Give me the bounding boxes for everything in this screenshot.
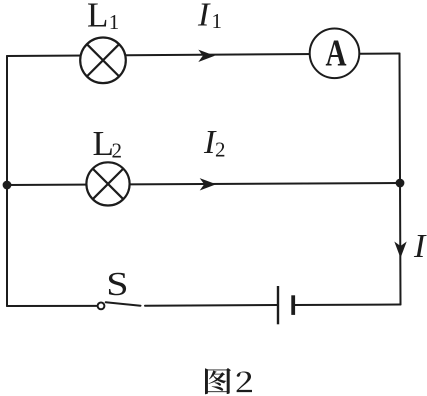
arrow current I1 on top wire (198, 50, 215, 62)
arrow current I on right wire (down) (394, 242, 406, 259)
wire right vertical (400, 54, 401, 305)
svg-text:I: I (413, 228, 427, 265)
wire bottom left (to switch) (7, 305, 97, 307)
svg-text:I: I (197, 0, 211, 33)
wire bottom middle (switch to battery) (145, 304, 277, 307)
node right junction dot (396, 179, 405, 188)
switch S pivot circle (98, 303, 105, 310)
battery short plate (negative) (291, 295, 295, 315)
label I2 (203, 124, 226, 162)
svg-text:1: 1 (212, 9, 223, 33)
svg-text:1: 1 (109, 10, 120, 34)
svg-text:L: L (87, 0, 108, 35)
label I1 (197, 0, 222, 33)
lamp L2 (86, 162, 129, 205)
label L1 (87, 0, 119, 35)
lamp L1 (80, 38, 126, 84)
arrow current I2 on middle wire (200, 178, 217, 190)
svg-text:S: S (106, 266, 128, 303)
label L2 (93, 124, 123, 163)
svg-text:2: 2 (112, 139, 123, 163)
svg-text:A: A (326, 32, 347, 74)
wire middle (branch 2, node to node) (7, 183, 400, 185)
wire left vertical (6, 56, 8, 306)
node left junction dot (3, 181, 12, 190)
switch S lever (106, 302, 141, 305)
svg-text:2: 2 (215, 138, 226, 162)
wire top (left corner to right corner, branch 1) (7, 54, 400, 57)
wire bottom right (battery to corner) (294, 304, 401, 307)
battery long plate (positive) (277, 286, 279, 324)
ammeter A (310, 29, 360, 79)
caption figure 2 (CJK glyph drawn as path) (205, 368, 252, 394)
